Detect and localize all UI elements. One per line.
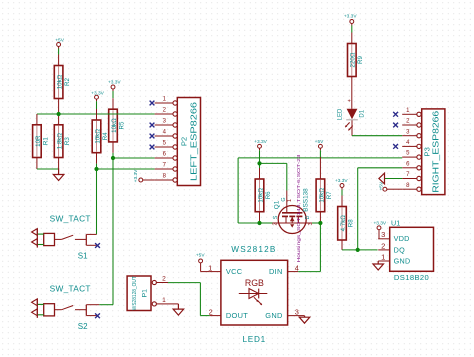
svg-text:GND: GND (265, 311, 282, 320)
svg-text:4: 4 (295, 264, 299, 273)
svg-text:DQ: DQ (394, 245, 405, 254)
svg-text:10kΩ: 10kΩ (257, 188, 264, 203)
svg-text:VDD: VDD (394, 234, 410, 243)
svg-text:R3: R3 (64, 137, 71, 145)
svg-text:220Ω: 220Ω (350, 52, 357, 67)
svg-text:3: 3 (381, 230, 385, 239)
svg-text:S1: S1 (78, 252, 88, 261)
svg-text:+3.3V: +3.3V (254, 139, 267, 145)
svg-text:DS18B20: DS18B20 (394, 273, 429, 282)
svg-text:R4: R4 (102, 132, 109, 140)
svg-text:SW_TACT: SW_TACT (50, 284, 91, 294)
svg-text:2: 2 (209, 308, 213, 317)
svg-text:R2: R2 (64, 77, 71, 85)
svg-text:LED1: LED1 (243, 335, 266, 344)
svg-text:+5V: +5V (315, 139, 324, 145)
svg-text:GND: GND (394, 256, 411, 265)
svg-text:R7: R7 (326, 191, 333, 199)
svg-text:WS28128_OUT: WS28128_OUT (132, 276, 138, 311)
svg-text:+3.3V: +3.3V (108, 80, 121, 86)
svg-text:+: + (348, 99, 351, 105)
svg-text:1: 1 (381, 252, 385, 261)
svg-text:+5V: +5V (378, 181, 384, 190)
svg-text:Q1: Q1 (273, 200, 280, 209)
svg-text:RIGHT_ESP8266: RIGHT_ESP8266 (432, 111, 441, 193)
svg-text:R1: R1 (42, 137, 49, 145)
svg-text:P3: P3 (423, 147, 432, 156)
svg-text:+5V: +5V (55, 38, 64, 44)
svg-text:10kΩ: 10kΩ (57, 74, 64, 89)
svg-text:3: 3 (295, 308, 299, 317)
svg-text:10kΩ: 10kΩ (111, 118, 118, 133)
svg-text:S: S (273, 215, 279, 219)
svg-text:Housings_SOT-143,TSOT-6;SOT-23: Housings_SOT-143,TSOT-6;SOT-23 (296, 154, 301, 263)
svg-text:2: 2 (272, 223, 278, 226)
svg-text:2: 2 (162, 276, 166, 283)
svg-text:R5: R5 (118, 121, 125, 129)
svg-text:+5V: +5V (196, 252, 205, 258)
svg-text:10R: 10R (35, 135, 42, 147)
svg-text:DOUT: DOUT (226, 311, 248, 320)
svg-text:3: 3 (308, 223, 314, 226)
svg-text:LEFT_ESP8266: LEFT_ESP8266 (190, 102, 199, 181)
svg-text:1: 1 (287, 199, 293, 202)
svg-text:1: 1 (208, 264, 212, 273)
svg-text:SW_TACT: SW_TACT (50, 213, 91, 223)
svg-text:WS2812B: WS2812B (231, 245, 276, 254)
svg-text:4.7kΩ: 4.7kΩ (340, 215, 347, 232)
svg-text:P1: P1 (141, 289, 148, 298)
svg-text:+3.3V: +3.3V (91, 90, 104, 96)
svg-text:+3.3V: +3.3V (373, 220, 386, 226)
svg-text:R8: R8 (347, 219, 354, 227)
svg-text:R9: R9 (357, 55, 364, 63)
svg-text:BSS138: BSS138 (302, 188, 309, 212)
svg-text:+3.3V: +3.3V (133, 169, 139, 182)
svg-text:2: 2 (381, 241, 385, 250)
svg-text:R6: R6 (265, 191, 272, 199)
svg-text:+3.3V: +3.3V (335, 178, 348, 184)
svg-text:S2: S2 (78, 322, 88, 331)
svg-text:D: D (305, 215, 311, 219)
svg-text:U1: U1 (391, 219, 400, 228)
svg-text:LED: LED (338, 108, 344, 120)
svg-text:10kΩ: 10kΩ (318, 188, 325, 203)
svg-text:RGB: RGB (245, 278, 264, 288)
svg-text:P2: P2 (179, 137, 188, 146)
svg-text:VCC: VCC (226, 267, 243, 276)
svg-text:D1: D1 (360, 109, 366, 117)
svg-text:10kΩ: 10kΩ (94, 129, 101, 144)
svg-text:1.8kΩ: 1.8kΩ (57, 133, 64, 150)
svg-text:1: 1 (162, 297, 166, 304)
svg-text:+3.3V: +3.3V (344, 14, 357, 20)
svg-text:DIN: DIN (269, 267, 283, 276)
